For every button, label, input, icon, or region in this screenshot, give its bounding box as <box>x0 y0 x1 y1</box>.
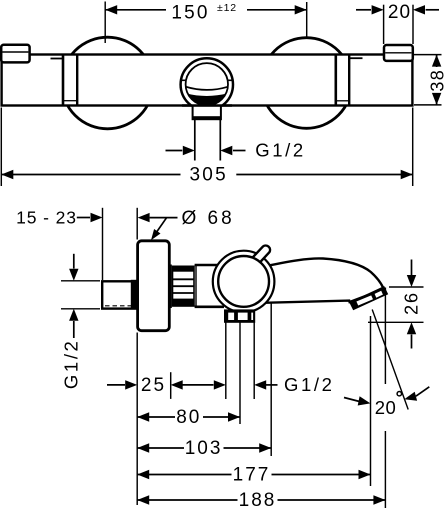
svg-text:Ø 68: Ø 68 <box>182 208 235 229</box>
valve dome <box>218 256 269 307</box>
right escutcheon circle <box>261 38 352 129</box>
svg-text:80: 80 <box>176 407 201 428</box>
svg-text:G1/2: G1/2 <box>284 374 335 395</box>
svg-text:177: 177 <box>233 465 271 486</box>
svg-text:G1/2: G1/2 <box>61 339 82 390</box>
dim 26 <box>368 260 424 349</box>
adapter nut <box>173 266 195 306</box>
svg-text:38: 38 <box>428 69 445 92</box>
control lever <box>252 246 270 265</box>
left handle index mark <box>51 58 64 60</box>
dim 20 <box>356 2 439 44</box>
svg-text:15 - 23: 15 - 23 <box>16 207 77 227</box>
valve outer ring <box>213 251 275 313</box>
dim 103 <box>137 438 271 459</box>
dim 38 <box>414 55 445 105</box>
shower outlet flange <box>224 309 255 322</box>
left wall union <box>1 45 29 63</box>
extension lines bottom <box>137 208 385 508</box>
right handle groove <box>336 55 349 106</box>
svg-text:305: 305 <box>190 165 228 186</box>
spout aerator face <box>349 286 388 310</box>
left handle groove <box>63 55 77 106</box>
right wall union <box>384 45 413 61</box>
spout <box>259 258 384 303</box>
dim 188 <box>137 490 385 508</box>
dim 25 and G1/2 row <box>107 374 335 396</box>
dim 305 <box>1 108 412 187</box>
right handle index mark <box>350 57 363 59</box>
left escutcheon circle <box>62 37 154 129</box>
svg-text:20: 20 <box>375 397 397 418</box>
svg-text:150: 150 <box>171 2 209 23</box>
outlet side notches <box>181 79 233 81</box>
mixer body bar <box>2 55 413 106</box>
svg-text:20: 20 <box>388 2 411 23</box>
svg-text:G1/2: G1/2 <box>255 140 306 161</box>
dim 20deg angle <box>344 387 429 418</box>
valve body tube <box>195 265 226 307</box>
svg-text:25: 25 <box>141 375 166 396</box>
svg-text:±12: ±12 <box>217 2 237 14</box>
body bottom line over outlet <box>182 104 232 106</box>
central outlet ring inner <box>186 63 228 105</box>
central outlet ring outer <box>181 58 233 110</box>
escutcheon back collar <box>170 265 172 309</box>
dim 15-23 <box>16 207 102 280</box>
svg-text:103: 103 <box>185 438 223 459</box>
svg-text:188: 188 <box>239 490 277 508</box>
dim 177 <box>137 465 370 486</box>
svg-text:26: 26 <box>402 291 422 315</box>
escutcheon side view <box>138 241 170 331</box>
dim 150 +/-12 <box>105 2 307 44</box>
outlet flange <box>193 106 221 120</box>
dim Oslash 68 leader <box>138 208 235 240</box>
dim 80 <box>137 407 240 428</box>
dim G1/2 wall pipe vertical <box>61 254 101 389</box>
outlet dark underside <box>183 86 231 106</box>
spout angle 20deg line <box>372 310 408 410</box>
wall supply pipe <box>102 280 137 310</box>
label G1/2 outlet <box>166 140 306 161</box>
outlet pipe <box>195 120 221 161</box>
